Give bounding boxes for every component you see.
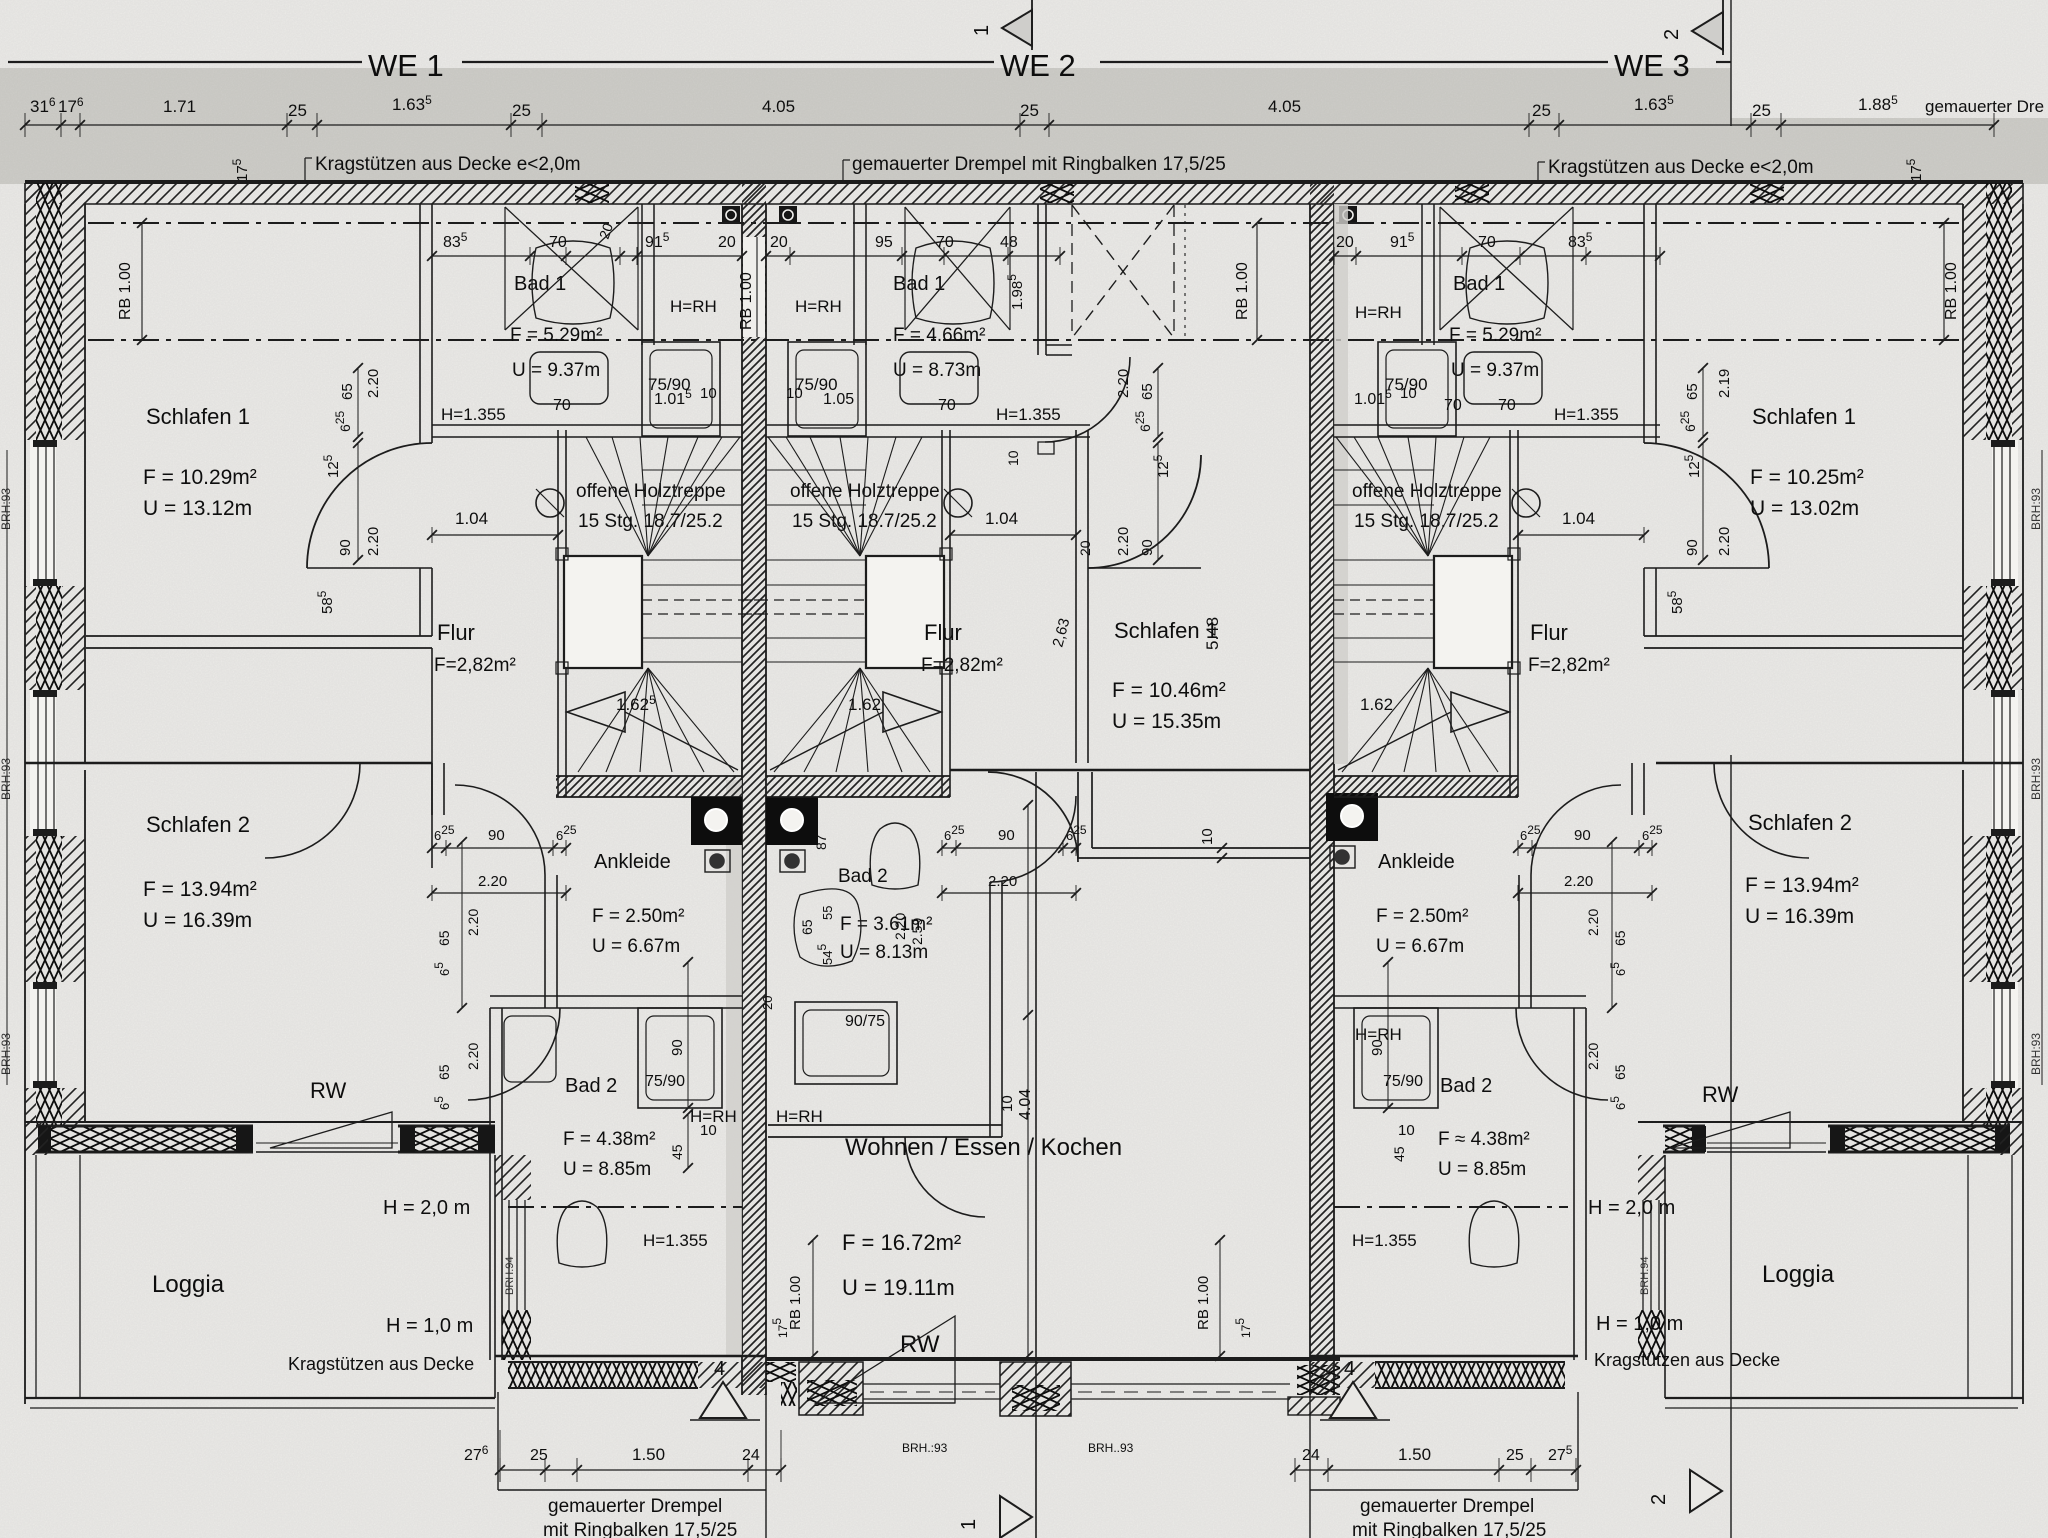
WE3 smoke detector circle (1512, 489, 1540, 517)
WE1 door dim column upper (357, 368, 359, 437)
svg-text:RB 1.00: RB 1.00 (1943, 262, 1960, 320)
WE3 stair right stringer (1509, 430, 1511, 797)
note Kragstuetzen right (1537, 162, 1539, 184)
WE2 Bad2 door top (990, 796, 1076, 882)
svg-text:Kragstützen aus Decke e<2,0m: Kragstützen aus Decke e<2,0m (1548, 157, 1814, 178)
WE1 stair bottom hatch band (556, 776, 742, 797)
WE1 loggia left wall (25, 1122, 48, 1155)
svg-text:65: 65 (339, 383, 356, 400)
WE3 Bad2 dashdot (1334, 1206, 1568, 1208)
WE1 Ankleide west wall (544, 875, 546, 1008)
WE3 divider T wall (1631, 763, 1633, 815)
svg-text:gemauerter Dre: gemauerter Dre (1925, 97, 2044, 116)
chimney block WE1 (691, 797, 742, 845)
WE3 Bad1 sink (1464, 352, 1542, 404)
WE3 Schlafen1 wall (1643, 204, 1645, 443)
WE1 door Schlafen1 (307, 443, 432, 568)
svg-text:1.04: 1.04 (455, 509, 488, 528)
WE1 Bad2 dim 90/45/10 (687, 962, 689, 1108)
east outer wall (2022, 204, 2024, 1122)
svg-text:BRH:93: BRH:93 (2029, 488, 2043, 530)
WE2 Bad2 door bottom (905, 1137, 985, 1217)
WE2 south wall left insul (766, 1362, 796, 1382)
WE2 stair mid treads (766, 559, 866, 561)
WE1 stair lower fan (578, 668, 648, 772)
svg-text:H = 2,0 m: H = 2,0 m (1588, 1197, 1675, 1219)
window in west wall (30, 982, 56, 1088)
svg-text:2: 2 (1661, 29, 1683, 40)
svg-text:25: 25 (1506, 1447, 1524, 1464)
WE2 stair arrow (883, 692, 941, 732)
svg-text:2.20: 2.20 (1716, 527, 1733, 556)
WE1 Bad2 shower 75/90 (638, 1008, 722, 1108)
svg-text:90: 90 (669, 1039, 686, 1056)
svg-text:Bad 1: Bad 1 (514, 273, 566, 295)
WE2 stair lower fan (860, 668, 930, 772)
WE2 Bad2 toilet (870, 823, 920, 889)
WE1 wall below door (419, 568, 421, 636)
WE2 Schlafen1 door (1088, 455, 1201, 568)
WE1 dim 1.04 (432, 534, 558, 536)
WE2 hall wall top (1037, 204, 1039, 355)
svg-text:55: 55 (820, 906, 835, 920)
svg-text:75/90: 75/90 (1383, 1073, 1423, 1090)
svg-text:70: 70 (1444, 397, 1462, 414)
svg-text:75/90: 75/90 (645, 1073, 685, 1090)
svg-text:1: 1 (971, 25, 993, 36)
WE3 loggia right wall (2000, 1122, 2023, 1155)
section marker 2 top (1692, 12, 1723, 50)
svg-text:70: 70 (553, 397, 571, 414)
svg-text:RB 1.00: RB 1.00 (787, 1276, 804, 1330)
WE3 stair arrow (1451, 692, 1509, 732)
svg-text:F = 10.25m²: F = 10.25m² (1750, 466, 1864, 489)
WE1 wall Schlafen1/Bad1 (419, 204, 421, 443)
svg-text:65: 65 (436, 1064, 452, 1080)
svg-text:F = 10.29m²: F = 10.29m² (143, 466, 257, 489)
svg-text:H=1.355: H=1.355 (1352, 1231, 1417, 1250)
svg-text:25: 25 (288, 101, 307, 120)
section marker 1 bottom (1000, 1496, 1032, 1538)
svg-text:H=1.355: H=1.355 (441, 405, 506, 424)
svg-text:Kragstützen aus Decke: Kragstützen aus Decke (288, 1354, 474, 1374)
svg-text:Flur: Flur (924, 620, 962, 645)
WE2 hall door (1045, 357, 1130, 442)
svg-text:24: 24 (1302, 1447, 1320, 1464)
WE2 Bad2 walls (989, 882, 991, 1137)
svg-text:90/75: 90/75 (845, 1013, 885, 1030)
svg-text:2: 2 (1648, 1494, 1670, 1505)
WE3 upper dim chain (1334, 255, 1660, 257)
svg-text:1.05: 1.05 (823, 391, 854, 408)
WE2 south wall right insul (1297, 1365, 1340, 1395)
svg-text:U = 9.37m: U = 9.37m (512, 360, 600, 381)
WE2 skylight dashed box (1072, 205, 1174, 338)
svg-text:BRH:93: BRH:93 (2029, 1033, 2043, 1075)
svg-text:10: 10 (999, 1095, 1016, 1112)
WE2 smoke detector circle (944, 489, 972, 517)
svg-text:20: 20 (718, 234, 736, 251)
WE1 loggia window flap (256, 1151, 398, 1153)
svg-text:Kragstützen aus Decke e<2,0m: Kragstützen aus Decke e<2,0m (315, 154, 581, 175)
stipple strip east of party wall 2 (1334, 204, 1348, 764)
svg-text:Bad 2: Bad 2 (1440, 1075, 1492, 1097)
svg-text:2.20: 2.20 (1115, 369, 1132, 398)
west outer wall (24, 204, 26, 1122)
WE1 stair mid treads (642, 559, 742, 561)
WE3 loggia top wall (1638, 1121, 2023, 1123)
svg-text:BRH.:93: BRH.:93 (902, 1441, 948, 1455)
WE3 Schlafen1 door (1644, 443, 1769, 568)
svg-text:U = 8.85m: U = 8.85m (563, 1159, 651, 1180)
WE3 door dim column (1702, 368, 1704, 437)
svg-text:4.04: 4.04 (1017, 1089, 1034, 1120)
svg-text:H=1.355: H=1.355 (1554, 405, 1619, 424)
WE3 Bad1 bottom wall (1334, 424, 1660, 426)
WE1 smoke detector circle (536, 489, 564, 517)
WE3 Bad2 toilet (1469, 1201, 1519, 1267)
WE2 stair right stringer (941, 430, 943, 797)
svg-text:offene Holztreppe: offene Holztreppe (1352, 481, 1502, 502)
WE3 Bad1 washbasin (1466, 241, 1548, 324)
WE1 Bad1 skylight cross (505, 207, 638, 330)
svg-text:70: 70 (938, 397, 956, 414)
WE1 Bad2 door (468, 1008, 560, 1100)
WE3 loggia left wall (1638, 1155, 1665, 1200)
svg-text:65: 65 (799, 919, 815, 935)
WE1 divider T wall (431, 763, 433, 815)
WE1 Bad2 toilet (557, 1201, 607, 1267)
svg-text:F=2,82m²: F=2,82m² (1528, 655, 1610, 676)
svg-text:gemauerter Drempel: gemauerter Drempel (1360, 1496, 1534, 1517)
svg-text:2.20: 2.20 (478, 873, 507, 890)
svg-text:Loggia: Loggia (152, 1271, 225, 1298)
svg-text:BRH.94: BRH.94 (504, 1256, 516, 1295)
WE1 stair arrow (567, 692, 625, 732)
svg-text:U = 16.39m: U = 16.39m (1745, 905, 1854, 928)
svg-text:2.20: 2.20 (1115, 527, 1132, 556)
svg-text:90: 90 (1684, 539, 1701, 556)
WE1 Bad1 washbasin (532, 241, 614, 324)
WE2 shower 90/75 (795, 1002, 897, 1084)
svg-text:F = 2.50m²: F = 2.50m² (1376, 906, 1468, 927)
svg-text:RB 1.00: RB 1.00 (738, 272, 755, 330)
WE2 stair walk line dashed (742, 599, 866, 601)
WE3 Bad2 east wall (1573, 1008, 1575, 1360)
north outer wall hatched (25, 183, 2023, 204)
svg-text:H = 1,0 m: H = 1,0 m (386, 1315, 473, 1337)
svg-text:25: 25 (1752, 101, 1771, 120)
svg-text:48: 48 (1000, 234, 1018, 251)
WE1 stair upper risers (642, 469, 742, 471)
svg-text:WE 3: WE 3 (1614, 48, 1690, 83)
WE3 Ankleide east wall (1518, 875, 1520, 1008)
svg-text:F=2,82m²: F=2,82m² (434, 655, 516, 676)
svg-text:H=RH: H=RH (670, 297, 717, 316)
svg-text:F=2,82m²: F=2,82m² (921, 655, 1003, 676)
svg-text:Flur: Flur (437, 620, 475, 645)
svg-text:Ankleide: Ankleide (1378, 851, 1455, 873)
svg-text:2.20: 2.20 (465, 1043, 481, 1070)
svg-text:65: 65 (1684, 383, 1701, 400)
svg-text:U = 15.35m: U = 15.35m (1112, 710, 1221, 733)
svg-text:RB 1.00: RB 1.00 (117, 262, 134, 320)
svg-text:45: 45 (1391, 1146, 1407, 1162)
WE1 Bad2 top wall (490, 995, 742, 997)
WE3 stair upper fan (1428, 437, 1490, 556)
WE3 chain 6-90-6 / 2.20 (1518, 847, 1652, 849)
WE3 stair lower fan (1428, 668, 1498, 772)
WE1 stair core (564, 556, 642, 668)
WE3 loggia window flap (1707, 1151, 1826, 1153)
svg-text:90: 90 (998, 827, 1015, 844)
section line 2 bottom (1730, 755, 1732, 1538)
svg-text:Bad 2: Bad 2 (838, 866, 888, 887)
top dimension chain (25, 124, 1994, 126)
column patches in north wall (575, 184, 609, 203)
svg-text:U = 13.02m: U = 13.02m (1750, 497, 1859, 520)
svg-text:25: 25 (1532, 101, 1551, 120)
svg-text:10: 10 (1199, 828, 1216, 845)
WE3 loggia bottom (1665, 1397, 2023, 1399)
svg-text:15 Stg. 18.7/25.2: 15 Stg. 18.7/25.2 (1354, 511, 1499, 532)
WE1 stair walk line dashed (642, 599, 766, 601)
WE1 divider door arc (265, 763, 360, 858)
svg-text:1.62: 1.62 (848, 695, 881, 714)
chimney block WE3 (1326, 793, 1378, 841)
WE3 Bad2 dims (1387, 962, 1389, 1108)
svg-text:H=1.355: H=1.355 (643, 1231, 708, 1250)
WE1 loggia right wall (495, 1155, 531, 1200)
WE2 Bad1 sink (900, 352, 978, 404)
WE3 Bad2 top wall (1334, 995, 1586, 997)
WE1 loggia top wall (25, 1121, 495, 1123)
WE2 Schlafen1 wall (1075, 430, 1077, 763)
WE2 stair upper risers (766, 469, 866, 471)
svg-text:4.05: 4.05 (1268, 97, 1301, 116)
WE3 Bad1 skylight cross (1440, 207, 1573, 330)
WE1 chain 6-90-6 / 2.20 (432, 847, 566, 849)
WE2 shower 75/90 (788, 342, 866, 436)
WE1 loggia bottom (25, 1397, 495, 1399)
section marker 4 (700, 1382, 746, 1418)
party wall 1 break with RB label (743, 237, 765, 337)
svg-text:2.20: 2.20 (1564, 873, 1593, 890)
svg-text:WE 2: WE 2 (1000, 48, 1076, 83)
WE3 niche wall (1644, 635, 1963, 637)
RB 1.00 dims (141, 223, 143, 340)
WE3 door col lower dims (1611, 842, 1613, 1008)
WE2 stair bottom hatch band (766, 776, 950, 797)
WE3 stair core (1434, 556, 1512, 668)
WE3 stair mid treads (1334, 559, 1434, 561)
svg-text:2.19: 2.19 (1716, 369, 1733, 398)
column dots at party walls (722, 206, 740, 224)
svg-text:F = 13.94m²: F = 13.94m² (1745, 874, 1859, 897)
WE3 Bad2 door (1516, 1008, 1608, 1100)
WE3 loggia inner wall line (1967, 1155, 1969, 1398)
svg-text:2.20: 2.20 (465, 909, 481, 936)
svg-text:U = 13.12m: U = 13.12m (143, 497, 252, 520)
svg-text:F = 2.50m²: F = 2.50m² (592, 906, 684, 927)
far left edge line (6, 450, 8, 1085)
svg-text:Wohnen / Essen / Kochen: Wohnen / Essen / Kochen (845, 1134, 1122, 1161)
svg-text:BRH:93: BRH:93 (2029, 758, 2043, 800)
section marker 1 top (1002, 10, 1032, 46)
WE1 Bad1 sink (530, 352, 608, 404)
WE2 south window 2 (1071, 1383, 1290, 1385)
WE2 Bad1 bottom wall (766, 424, 1090, 426)
svg-text:2.20: 2.20 (365, 527, 382, 556)
svg-text:25: 25 (512, 101, 531, 120)
WE2 south window 1 (863, 1383, 1000, 1385)
svg-text:1.50: 1.50 (1398, 1445, 1431, 1464)
svg-text:90: 90 (337, 539, 354, 556)
WE3 shower 75/90 (1378, 342, 1456, 436)
WE1 niche wall A (86, 635, 432, 637)
WE2 Bad2 sink oval (794, 889, 861, 966)
WE2 upper dim chain (766, 255, 1060, 257)
svg-text:1.62: 1.62 (1360, 695, 1393, 714)
svg-text:1.50: 1.50 (632, 1445, 665, 1464)
WE2 chain 6-90-6 / 2.20 right (942, 847, 1076, 849)
svg-text:U = 16.39m: U = 16.39m (143, 909, 252, 932)
svg-text:U = 8.73m: U = 8.73m (893, 360, 981, 381)
svg-text:70: 70 (936, 234, 954, 251)
svg-text:70: 70 (549, 234, 567, 251)
WE1 Bad2 dashdot (508, 1206, 742, 1208)
window in west wall (30, 440, 56, 586)
svg-text:10: 10 (1005, 450, 1021, 466)
svg-text:1: 1 (958, 1519, 980, 1530)
WE3 Bad1 niche wall (1421, 204, 1423, 345)
section marker 4 right (1330, 1382, 1376, 1418)
window in east wall (1992, 982, 2018, 1088)
WE1 upper dim chain (432, 255, 742, 257)
WE1 shower 75/90 (642, 342, 720, 436)
WE1 bath column bottom wall (495, 1355, 766, 1358)
WE1 Bad1 bottom wall (432, 424, 742, 426)
svg-text:87: 87 (813, 834, 829, 850)
svg-text:Schlafen 2: Schlafen 2 (146, 812, 250, 837)
party wall WE1-WE2 (742, 183, 766, 1395)
WE3 stair walk line dashed (1334, 599, 1434, 601)
svg-text:1.04: 1.04 (1562, 509, 1595, 528)
WE2 schlafen1 closet L-wall (1077, 772, 1079, 858)
stipple strip west of party wall 1 (726, 780, 742, 1356)
svg-text:Bad 2: Bad 2 (565, 1075, 617, 1097)
svg-text:Schlafen 2: Schlafen 2 (1748, 810, 1852, 835)
svg-text:Schlafen 1: Schlafen 1 (146, 404, 250, 429)
svg-text:U = 6.67m: U = 6.67m (1376, 936, 1464, 957)
WE2 south wall middle pier (1000, 1362, 1071, 1416)
section marker 2 bottom (1690, 1470, 1722, 1512)
svg-text:Loggia: Loggia (1762, 1261, 1835, 1288)
svg-text:1.04: 1.04 (985, 509, 1018, 528)
svg-text:2.20: 2.20 (892, 913, 908, 940)
WE1 loggia inner wall line (79, 1155, 81, 1398)
svg-text:Kragstützen aus Decke: Kragstützen aus Decke (1594, 1350, 1780, 1370)
WE3 Bad2 shower 75/90 (1354, 1008, 1438, 1108)
WE1 bottom dim chain (500, 1469, 781, 1471)
svg-text:70: 70 (1498, 397, 1516, 414)
grey scan band at top (0, 68, 1731, 184)
WE2 stair upper fan (860, 437, 922, 556)
svg-text:F = 4.38m²: F = 4.38m² (563, 1129, 655, 1150)
svg-text:F = 16.72m²: F = 16.72m² (842, 1230, 961, 1255)
svg-text:H = 1,0 m: H = 1,0 m (1596, 1313, 1683, 1335)
roof line RB upper (88, 222, 1960, 224)
svg-text:10: 10 (1398, 1122, 1415, 1139)
svg-text:U = 6.67m: U = 6.67m (592, 936, 680, 957)
svg-text:BRH.94: BRH.94 (1639, 1256, 1651, 1295)
far right edge line (2041, 450, 2043, 1085)
svg-text:H=1.355: H=1.355 (996, 405, 1061, 424)
WE2 Bad1 skylight cross (905, 207, 1010, 330)
WE2 Bad1 niche wall (853, 204, 855, 345)
svg-text:H=RH: H=RH (795, 297, 842, 316)
svg-text:20: 20 (1077, 540, 1093, 556)
WE3 drempel box (1577, 1392, 1579, 1490)
WE2 vertical dim 4.04 (1027, 805, 1029, 1356)
svg-text:BRH..93: BRH..93 (1088, 1441, 1134, 1455)
svg-text:20: 20 (760, 996, 775, 1010)
WE1 Bad1 niche wall (641, 204, 643, 345)
svg-text:5.48: 5.48 (1203, 617, 1222, 650)
svg-text:15 Stg. 18.7/25.2: 15 Stg. 18.7/25.2 (792, 511, 937, 532)
svg-text:15 Stg. 18.7/25.2: 15 Stg. 18.7/25.2 (578, 511, 723, 532)
svg-text:90: 90 (488, 827, 505, 844)
svg-text:gemauerter Drempel mit Ringbal: gemauerter Drempel mit Ringbalken 17,5/2… (852, 154, 1226, 175)
svg-text:20: 20 (770, 234, 788, 251)
svg-text:1.71: 1.71 (163, 97, 196, 116)
svg-text:10: 10 (786, 385, 803, 402)
svg-text:H=RH: H=RH (1355, 303, 1402, 322)
WE3 stair bottom hatch band (1334, 776, 1518, 797)
svg-text:24: 24 (742, 1447, 760, 1464)
WE2 dim 10 rotated at closet (1217, 843, 1227, 853)
svg-text:45: 45 (669, 1144, 685, 1160)
WE2 stair core (866, 556, 944, 668)
WE3 dim 1.04 (1518, 534, 1644, 536)
WE2 south wall top line (766, 1357, 1340, 1361)
svg-text:2.20: 2.20 (1585, 1043, 1601, 1070)
WE1 door col lower dims (461, 842, 463, 1008)
WE2 dim 1.04 (950, 534, 1076, 536)
svg-text:2.59: 2.59 (909, 918, 925, 945)
svg-text:RB 1.00: RB 1.00 (1195, 1276, 1212, 1330)
svg-text:65: 65 (1612, 1064, 1628, 1080)
WE1 Bad2 west wall (489, 1008, 491, 1360)
svg-text:H = 2,0 m: H = 2,0 m (383, 1197, 470, 1219)
svg-text:Flur: Flur (1530, 620, 1568, 645)
WE2 divider right part (950, 769, 1310, 772)
svg-text:65: 65 (1139, 383, 1156, 400)
svg-text:10: 10 (1400, 385, 1417, 402)
section line 1 long (1035, 772, 1037, 1538)
window in east wall (1992, 440, 2018, 586)
WE1 Ankleide door (455, 785, 545, 875)
svg-text:mit Ringbalken 17,5/25: mit Ringbalken 17,5/25 (543, 1520, 737, 1538)
svg-text:U = 8.85m: U = 8.85m (1438, 1159, 1526, 1180)
svg-text:F = 10.46m²: F = 10.46m² (1112, 679, 1226, 702)
WE2 door dim column (1157, 368, 1159, 437)
svg-text:90: 90 (1574, 827, 1591, 844)
window in west wall (30, 690, 56, 836)
WE1 Flur walls (431, 648, 433, 868)
svg-text:95: 95 (875, 234, 893, 251)
svg-text:4: 4 (714, 1358, 725, 1380)
